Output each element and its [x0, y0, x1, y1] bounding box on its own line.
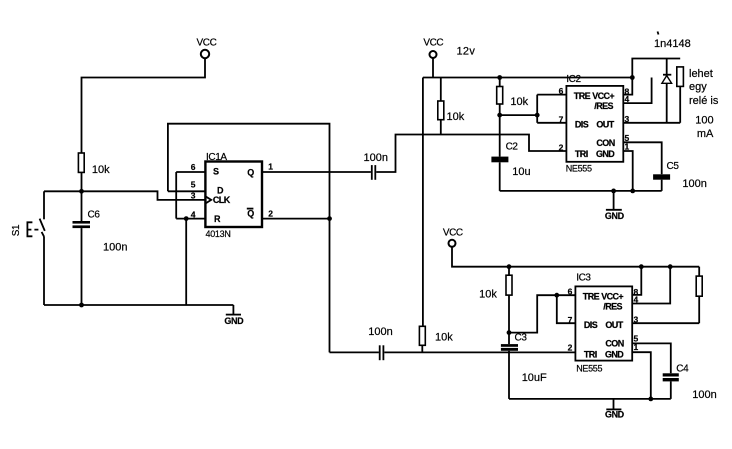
- timer IC2 NE555: [559, 74, 630, 174]
- resistor R6: [696, 267, 702, 324]
- svg-text:10u: 10u: [512, 166, 530, 178]
- wire DIS pin 7: [537, 122, 566, 124]
- timer IC3 NE555: [568, 273, 639, 374]
- capacitor C3: [501, 333, 527, 399]
- junction dot rail pin8: [639, 264, 644, 269]
- wire VCC drop: [432, 58, 434, 78]
- wire S-R tie vertical: [175, 172, 177, 219]
- svg-text:12v: 12v: [457, 45, 476, 57]
- svg-text:VCC: VCC: [423, 38, 443, 49]
- junction dot node A: [497, 113, 502, 118]
- svg-text:100n: 100n: [682, 178, 706, 190]
- svg-text:5: 5: [191, 180, 196, 190]
- wire pin 8 VCC: [623, 78, 632, 95]
- svg-text:S: S: [213, 167, 219, 177]
- svg-text:7: 7: [568, 315, 573, 325]
- svg-text:1n4148: 1n4148: [654, 38, 691, 50]
- svg-text:10k: 10k: [447, 111, 465, 123]
- svg-text:10k: 10k: [479, 289, 497, 301]
- wire GND pin 1 IC3: [632, 352, 651, 399]
- capacitor 100n coupling bottom: [368, 326, 392, 360]
- svg-text:10k: 10k: [435, 332, 453, 344]
- wire pins 6-7 vertical: [536, 95, 538, 123]
- svg-text:VCC+: VCC+: [592, 91, 614, 101]
- ground GND IC2: [605, 191, 625, 221]
- svg-text:GND: GND: [596, 149, 615, 159]
- svg-text:egy: egy: [689, 81, 707, 93]
- junction dot R wire: [184, 216, 189, 221]
- wire R1 bottom to node: [81, 172, 83, 191]
- svg-text:6: 6: [568, 287, 573, 297]
- svg-text:7: 7: [559, 115, 564, 125]
- wire Q pin 1: [262, 171, 371, 173]
- svg-text:C3: C3: [515, 333, 528, 344]
- junction dot rail diode branch: [630, 75, 635, 80]
- wire long vertical to lower 10k: [422, 78, 424, 327]
- svg-text:TRI: TRI: [584, 349, 597, 359]
- junction dot node B: [535, 113, 540, 118]
- svg-text:C4: C4: [676, 364, 689, 375]
- svg-text:100n: 100n: [692, 389, 716, 401]
- junction dot Qbar wire: [327, 216, 332, 221]
- wire DIS pin 7 IC3: [557, 295, 576, 323]
- junction dot pin1 tap: [630, 189, 635, 194]
- wire TRE pin 6: [537, 94, 566, 96]
- svg-text:/RES: /RES: [603, 301, 622, 311]
- svg-text:C2: C2: [506, 142, 519, 153]
- junction dot pin1 rail: [648, 397, 653, 402]
- junction dot rail R4: [507, 264, 512, 269]
- svg-text:VCC: VCC: [443, 228, 463, 239]
- resistor R2 10k: [438, 78, 465, 135]
- wire pin 4 RES: [623, 78, 651, 104]
- junction dot gnd tap: [611, 189, 616, 194]
- power symbol VCC lower: [443, 228, 463, 247]
- wire node R3 to pins 6-7: [500, 114, 538, 116]
- ground GND left: [224, 305, 244, 326]
- svg-text:2: 2: [568, 343, 573, 353]
- wire VCC lower rail: [452, 247, 699, 267]
- svg-text:10uF: 10uF: [522, 372, 547, 384]
- capacitor C4 100n: [663, 364, 717, 401]
- svg-text:TRI: TRI: [575, 149, 588, 159]
- power symbol VCC left: [197, 38, 217, 59]
- wire Qbar pin 2: [262, 218, 330, 220]
- wire ground rail IC2: [500, 190, 662, 192]
- svg-text:6: 6: [559, 86, 564, 96]
- svg-text:IC1A: IC1A: [206, 152, 227, 163]
- svg-text:GND: GND: [605, 211, 625, 221]
- label lehet egy rele is: [689, 68, 719, 140]
- wire R node to ground rail: [185, 219, 187, 305]
- resistor R4 10k: [479, 267, 512, 333]
- svg-text:2: 2: [268, 208, 273, 218]
- svg-text:DIS: DIS: [584, 320, 598, 330]
- svg-text:GND: GND: [605, 410, 625, 420]
- wire diode branch top: [632, 59, 680, 78]
- diode D1 1n4148: [654, 32, 691, 123]
- svg-text:lehet: lehet: [689, 68, 713, 80]
- wire trigger line to IC3 pin 2: [384, 351, 575, 353]
- capacitor C2 10u: [491, 115, 530, 191]
- svg-text:1: 1: [268, 162, 273, 172]
- junction dot pin6 node: [554, 293, 559, 298]
- resistor R1 10k: [78, 153, 110, 176]
- resistor R3 10k: [497, 78, 529, 116]
- svg-text:NE555: NE555: [566, 164, 592, 174]
- svg-text:DIS: DIS: [575, 119, 589, 129]
- node junction dot: [79, 189, 84, 194]
- wire VCC to resistor R1 top: [82, 58, 206, 153]
- svg-text:TRE: TRE: [574, 91, 591, 101]
- wire D pin 5: [168, 190, 206, 192]
- ground GND IC3: [605, 399, 625, 420]
- wire R pin 4: [176, 218, 205, 220]
- wire cap to IC2 TRI pin 2: [376, 135, 566, 173]
- svg-text:100: 100: [695, 115, 713, 127]
- wire OUT pin 3 IC3: [632, 322, 699, 324]
- wire S pin 6: [176, 171, 205, 173]
- svg-text:CON: CON: [596, 138, 614, 148]
- svg-text:Q: Q: [247, 168, 254, 178]
- junction dot rail pin4: [668, 264, 673, 269]
- svg-text:C5: C5: [667, 161, 680, 172]
- wire OUT pin 3: [623, 122, 680, 124]
- wire trigger line lower: [330, 351, 379, 353]
- svg-text:GND: GND: [224, 316, 244, 326]
- svg-text:C6: C6: [88, 209, 101, 220]
- svg-text:VCC+: VCC+: [601, 292, 623, 302]
- svg-text:S1: S1: [11, 224, 22, 236]
- wire GND pin 1: [623, 151, 632, 191]
- svg-text:CLK: CLK: [213, 195, 231, 205]
- svg-text:10k: 10k: [92, 164, 110, 176]
- power symbol VCC middle: [423, 38, 443, 58]
- wire pin 4 IC3: [632, 267, 670, 304]
- wire CLK net horizontal: [44, 191, 205, 200]
- svg-text:OUT: OUT: [605, 320, 623, 330]
- switch S1: [11, 191, 45, 305]
- svg-text:GND: GND: [605, 349, 624, 359]
- capacitor C5 100n: [653, 161, 707, 191]
- svg-text:2: 2: [559, 142, 564, 152]
- wire D loop up and over: [168, 124, 330, 353]
- wire node to pins 6-7 IC3: [509, 295, 575, 332]
- wire CON pin 5: [623, 142, 661, 174]
- svg-text:mA: mA: [697, 128, 714, 140]
- svg-text:OUT: OUT: [596, 119, 614, 129]
- svg-text:6: 6: [191, 162, 196, 172]
- svg-text:100n: 100n: [364, 152, 388, 164]
- junction dot R4 bottom: [507, 330, 512, 335]
- wire CON pin 5 IC3: [632, 343, 671, 373]
- resistor relay load: [677, 67, 684, 123]
- capacitor C6: [73, 191, 128, 305]
- svg-text:/RES: /RES: [594, 101, 613, 111]
- wire pin 8 IC3: [632, 267, 641, 295]
- svg-text:10k: 10k: [510, 96, 528, 108]
- junction dot rail R2: [497, 75, 502, 80]
- resistor R5 10k: [419, 326, 453, 352]
- wire ground rail left: [44, 304, 233, 306]
- svg-text:4013N: 4013N: [206, 229, 231, 239]
- svg-text:TRE: TRE: [583, 292, 600, 302]
- wire ground rail IC3: [509, 398, 671, 400]
- svg-text:Q: Q: [247, 208, 254, 218]
- svg-text:VCC: VCC: [197, 38, 217, 49]
- svg-text:relé is: relé is: [689, 95, 719, 107]
- svg-text:NE555: NE555: [576, 364, 602, 374]
- svg-text:IC2: IC2: [566, 74, 581, 85]
- flip-flop IC1A 4013N: [191, 152, 273, 239]
- junction dot rail: [79, 303, 84, 308]
- svg-text:IC3: IC3: [576, 273, 591, 284]
- wire VCC rail top: [423, 77, 632, 79]
- svg-text:CON: CON: [605, 339, 623, 349]
- svg-text:100n: 100n: [103, 242, 127, 254]
- capacitor 100n coupling top: [364, 152, 388, 180]
- svg-text:100n: 100n: [368, 326, 392, 338]
